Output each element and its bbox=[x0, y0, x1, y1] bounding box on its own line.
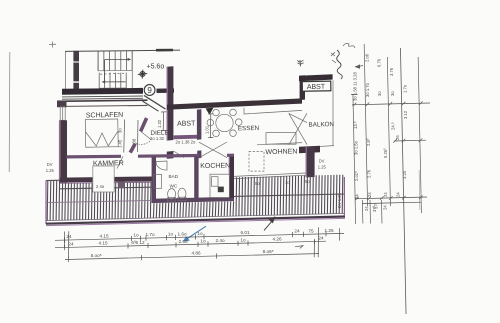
schlafen door leaf bbox=[141, 131, 152, 140]
svg-text:3o 1.5o: 3o 1.5o bbox=[354, 140, 359, 155]
svg-text:1.25: 1.25 bbox=[324, 228, 334, 233]
main vertical wall stairwell/diele bbox=[167, 66, 174, 140]
entrance door arrow bbox=[206, 108, 214, 115]
svg-text:2.o6: 2.o6 bbox=[364, 53, 369, 62]
svg-text:KOCHEN: KOCHEN bbox=[200, 163, 230, 171]
essen west wall upper bbox=[197, 109, 201, 139]
svg-text:26: 26 bbox=[395, 135, 400, 140]
balcony parapet right bbox=[332, 80, 334, 146]
svg-text:24: 24 bbox=[318, 236, 324, 241]
terrace right edge bbox=[343, 177, 345, 216]
right margin horizontal y140 bbox=[394, 139, 426, 142]
dimension row 3 bbox=[65, 253, 319, 262]
svg-text:24: 24 bbox=[66, 234, 72, 239]
svg-text:2o 1.32: 2o 1.32 bbox=[150, 136, 165, 141]
long boundary ticks bottom bbox=[64, 227, 339, 257]
abst right wall bbox=[197, 109, 201, 140]
right margin horizontal y103.5 bbox=[352, 103, 430, 105]
wohnen east wall vertical bbox=[307, 147, 315, 178]
diele door leaf to corridor bbox=[173, 151, 184, 158]
kitchen east wall bbox=[230, 156, 234, 198]
east vertical wall bbox=[300, 75, 305, 100]
chain line D x402 bbox=[400, 48, 406, 314]
svg-text:24: 24 bbox=[364, 206, 369, 211]
svg-text:5o: 5o bbox=[255, 181, 260, 186]
svg-text:4.26: 4.26 bbox=[272, 237, 282, 242]
svg-text:1.25: 1.25 bbox=[46, 168, 55, 173]
svg-text:24: 24 bbox=[383, 192, 388, 197]
kammer furniture white box bbox=[93, 166, 114, 192]
svg-text:24: 24 bbox=[68, 242, 74, 247]
entrance diagonal walls bbox=[144, 95, 166, 109]
stair walk line upper with right arrow bbox=[105, 58, 128, 60]
terrace bottom edge dark bbox=[46, 215, 345, 224]
svg-text:DV: DV bbox=[319, 158, 325, 163]
terrace bottom purple line bbox=[46, 218, 345, 225]
svg-text:WC: WC bbox=[170, 183, 178, 188]
wohnen ne wall horizontal bbox=[299, 146, 320, 153]
svg-text:+5.6o: +5.6o bbox=[147, 63, 165, 70]
bad west wall bbox=[152, 157, 156, 203]
chain A top tick bbox=[351, 93, 358, 95]
wohnen top line bbox=[257, 143, 302, 145]
stair west wall segments bbox=[73, 51, 79, 61]
svg-text:ABST: ABST bbox=[307, 84, 326, 91]
stair dashed cut marks bbox=[100, 73, 125, 74]
bad/kitchen wall bbox=[194, 156, 198, 202]
svg-text:3o: 3o bbox=[118, 128, 123, 133]
svg-text:BALKON: BALKON bbox=[308, 121, 334, 128]
svg-text:3o 1.7o: 3o 1.7o bbox=[365, 82, 370, 97]
toilet bbox=[168, 189, 176, 200]
bathtub bbox=[154, 174, 162, 188]
sideboard wohnen bbox=[266, 133, 296, 145]
svg-text:2.76: 2.76 bbox=[366, 169, 371, 178]
svg-text:1.32: 1.32 bbox=[157, 119, 162, 128]
abst top band bbox=[299, 74, 333, 81]
stair walk line vertical bbox=[104, 60, 106, 82]
svg-text:4.86: 4.86 bbox=[191, 251, 201, 256]
svg-text:4.15: 4.15 bbox=[98, 241, 108, 246]
stair south wall second line bbox=[62, 97, 143, 100]
terrace inner line under kammer bbox=[60, 187, 152, 189]
right margin horizontal y197.5 bbox=[355, 197, 427, 199]
svg-text:1o: 1o bbox=[197, 231, 203, 236]
compass symbol bbox=[138, 70, 147, 79]
kammer top wall bbox=[67, 155, 122, 159]
kammer door leaf bbox=[117, 156, 123, 168]
chain short lines bottom bbox=[361, 200, 363, 224]
stair south wall lower band bbox=[62, 95, 143, 98]
abst bottom wall bbox=[174, 135, 198, 139]
svg-text:2.69: 2.69 bbox=[178, 239, 188, 244]
south wall bad/kitchen bbox=[152, 197, 234, 203]
pen marks near squiggle bbox=[331, 52, 336, 63]
stair top wall line bbox=[65, 50, 180, 51]
kitchen sink dark bbox=[218, 187, 224, 193]
terrace left edge purple bbox=[45, 181, 47, 225]
hatch lines bbox=[47, 175, 343, 221]
svg-text:3.24: 3.24 bbox=[402, 170, 407, 179]
svg-text:24: 24 bbox=[294, 229, 300, 234]
window sill line under top wall bbox=[244, 110, 302, 114]
svg-text:WOHNEN: WOHNEN bbox=[265, 149, 297, 157]
blue pen arrow bbox=[185, 226, 206, 240]
svg-text:1o: 1o bbox=[168, 232, 174, 237]
balcony parapet bottom bbox=[313, 146, 335, 147]
svg-text:5o: 5o bbox=[305, 179, 310, 184]
svg-text:1.45: 1.45 bbox=[118, 139, 123, 148]
pen scribble top bbox=[343, 43, 355, 48]
wc cisterns bbox=[168, 198, 176, 201]
pen branch mark bbox=[297, 60, 303, 67]
stair landing line bbox=[98, 70, 133, 72]
svg-text:3o 1.58 11 3.28: 3o 1.58 11 3.28 bbox=[353, 72, 358, 101]
dining table bbox=[207, 109, 242, 137]
dimension row 2 bbox=[55, 239, 326, 250]
svg-text:6³5 12: 6³5 12 bbox=[131, 240, 145, 245]
svg-text:DV: DV bbox=[47, 162, 53, 167]
registration tick top-left bbox=[49, 42, 56, 48]
svg-text:3o: 3o bbox=[390, 91, 395, 96]
svg-text:1o: 1o bbox=[285, 180, 290, 185]
svg-text:2 4o: 2 4o bbox=[96, 184, 105, 189]
corner sink bad bbox=[156, 161, 167, 170]
chain line B x367 bbox=[364, 44, 367, 206]
svg-text:24: 24 bbox=[383, 205, 388, 210]
abst box bbox=[302, 81, 331, 91]
sheet edge line left bbox=[8, 52, 11, 172]
svg-text:2o 1.38 2o: 2o 1.38 2o bbox=[176, 140, 196, 145]
svg-text:1.6o: 1.6o bbox=[177, 232, 187, 237]
dimension row 1 bbox=[55, 231, 344, 243]
diagonal wall schlafen/diele bbox=[141, 118, 147, 131]
schlafen inner dim chain bbox=[123, 120, 126, 153]
right margin horizontal y202.5 bbox=[362, 202, 421, 203]
svg-text:SCHLAFEN: SCHLAFEN bbox=[86, 112, 123, 120]
west wall purple edge bbox=[59, 120, 61, 183]
stair walk line lower with left arrow bbox=[105, 81, 126, 83]
svg-text:1o: 1o bbox=[240, 237, 246, 242]
schlafen top wall double line bbox=[57, 100, 148, 101]
west wall dark bbox=[60, 120, 67, 183]
dashed wardrobe bbox=[249, 152, 264, 172]
svg-text:1.01: 1.01 bbox=[205, 125, 210, 134]
chain line C x390 bbox=[387, 57, 390, 206]
svg-text:BAD: BAD bbox=[169, 174, 179, 179]
chain line A x354 bbox=[353, 94, 356, 224]
svg-text:3o: 3o bbox=[377, 91, 382, 96]
terrace mid line right bbox=[234, 194, 344, 196]
bidet bbox=[178, 188, 186, 199]
stair top wall thick segment bbox=[156, 49, 173, 52]
svg-text:1.7o: 1.7o bbox=[403, 84, 408, 93]
svg-text:3.12: 3.12 bbox=[403, 110, 408, 119]
svg-text:24: 24 bbox=[395, 192, 400, 197]
west window schlafen bbox=[60, 107, 65, 121]
chain line E x420 bbox=[418, 57, 421, 213]
terrace mid line left bbox=[46, 200, 152, 202]
squiggle break line bbox=[337, 50, 343, 79]
svg-text:2.4o: 2.4o bbox=[215, 238, 225, 243]
terrace inner bottom line bbox=[46, 213, 345, 220]
west wall corner bbox=[57, 101, 67, 108]
bed bbox=[85, 119, 118, 147]
kitchen top wall east piece bbox=[227, 154, 234, 157]
svg-text:6.76: 6.76 bbox=[376, 58, 381, 67]
stair south wall thick band bbox=[62, 88, 143, 95]
wohnen south window line bbox=[234, 175, 306, 178]
tiny tick crossings right margin bbox=[353, 101, 423, 200]
bad top wall bbox=[138, 154, 199, 158]
kitchen counter bbox=[210, 174, 229, 197]
drain arrow annotation bbox=[264, 221, 273, 231]
svg-text:ESSEN: ESSEN bbox=[238, 125, 260, 132]
row2 small arrow bbox=[295, 246, 303, 249]
chain top arrow bbox=[355, 66, 363, 67]
small dark cabinet bbox=[118, 182, 125, 189]
stair outer west line bbox=[65, 51, 67, 90]
stair window lines west bbox=[73, 61, 79, 63]
svg-text:1.7o: 1.7o bbox=[145, 232, 155, 237]
svg-text:75: 75 bbox=[308, 228, 314, 233]
balcony door X bbox=[289, 113, 307, 145]
schlafen dim ticks column 2 bbox=[137, 120, 140, 152]
svg-text:24: 24 bbox=[367, 192, 372, 197]
svg-text:4.15: 4.15 bbox=[99, 233, 109, 238]
main top wall band bbox=[167, 98, 302, 109]
svg-text:1o: 1o bbox=[200, 238, 206, 243]
apartment number circle 9 bbox=[144, 85, 155, 96]
svg-text:3.76: 3.76 bbox=[389, 67, 394, 76]
svg-text:ABST: ABST bbox=[177, 120, 196, 127]
svg-text:6.01: 6.01 bbox=[240, 230, 250, 235]
stair treads upper flight bbox=[98, 51, 132, 71]
entrance dim chain bbox=[208, 114, 213, 138]
terrace top edge west piece bbox=[46, 179, 60, 181]
door gap band east piece bbox=[157, 88, 175, 93]
corridor wall to essen lower piece bbox=[197, 150, 201, 158]
diele dim chain small bbox=[161, 112, 166, 131]
stair side lines bbox=[131, 51, 133, 88]
svg-text:1.25: 1.25 bbox=[318, 165, 327, 170]
svg-text:1o: 1o bbox=[133, 233, 139, 238]
south wall kammer bbox=[60, 177, 152, 183]
svg-text:9: 9 bbox=[147, 86, 152, 95]
door X corridor kitchen bbox=[199, 142, 227, 158]
stair treads lower flight bbox=[99, 73, 126, 88]
